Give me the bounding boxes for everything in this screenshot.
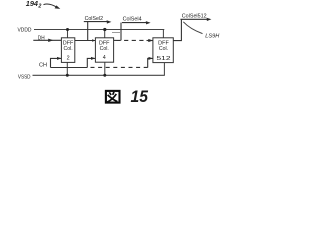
svg-text:CH: CH — [39, 62, 47, 68]
svg-text:15: 15 — [131, 87, 149, 106]
svg-text:2: 2 — [37, 4, 41, 10]
svg-text:Col.: Col. — [100, 46, 109, 52]
svg-text:4: 4 — [103, 55, 106, 61]
svg-text:Col.: Col. — [64, 46, 73, 52]
svg-text:LS9H: LS9H — [205, 34, 219, 40]
svg-text:ColSel512: ColSel512 — [182, 13, 207, 19]
svg-text:2: 2 — [67, 56, 70, 62]
svg-text:194: 194 — [26, 0, 39, 8]
svg-text:VSSD: VSSD — [18, 75, 31, 81]
svg-text:ColSel4: ColSel4 — [123, 17, 142, 23]
svg-text:VDDD: VDDD — [18, 27, 32, 33]
svg-text:DH: DH — [38, 35, 45, 41]
svg-text:512: 512 — [157, 56, 171, 62]
svg-text:Col.: Col. — [159, 46, 168, 52]
svg-text:ColSel2: ColSel2 — [85, 16, 103, 22]
